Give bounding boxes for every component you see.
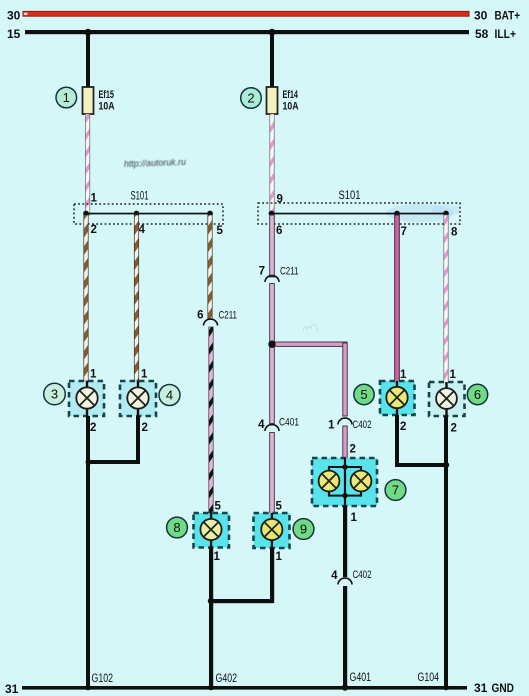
lamp 4	[120, 381, 156, 416]
callout circle 6	[467, 384, 487, 404]
svg-text:9: 9	[277, 194, 283, 206]
callout circle 1	[56, 87, 77, 108]
lamp 5	[380, 381, 415, 415]
node junction pink	[268, 341, 275, 348]
svg-text:GND: GND	[492, 681, 515, 695]
bus 15 ILL+ line	[25, 30, 469, 34]
svg-text:S101: S101	[339, 190, 361, 202]
wire lamp3 to ground	[86, 416, 90, 688]
svg-text:G401: G401	[350, 670, 372, 684]
connector C402 pin4	[331, 569, 371, 585]
wire C402 to ground G401	[342, 586, 348, 691]
svg-text:http://autoruk.ru: http://autoruk.ru	[124, 157, 187, 170]
wire C211 to junction (pink)	[270, 284, 275, 346]
svg-text:31: 31	[5, 682, 19, 696]
wire branch to C402 (pink)	[272, 342, 347, 416]
wire S101 pin4 to lamp4 (brown/white)	[134, 215, 138, 381]
lamp 6	[429, 382, 465, 416]
callout circle 8	[167, 517, 188, 538]
svg-text:1: 1	[91, 193, 98, 205]
svg-text:5: 5	[217, 225, 224, 237]
svg-text:1: 1	[400, 369, 407, 381]
wire S101 pin6 upper (pink)	[270, 215, 275, 277]
bus 30 BAT+ line	[23, 11, 469, 16]
wire junction to C401 (pink)	[270, 345, 275, 424]
wire S101 pin8 to lamp6 (pink/white)	[444, 215, 448, 383]
wire lamp8 to ground G402	[208, 548, 214, 689]
svg-text:7: 7	[259, 266, 265, 278]
svg-text:1: 1	[90, 369, 97, 381]
svg-text:6: 6	[276, 225, 282, 237]
svg-text:1: 1	[351, 512, 358, 524]
svg-text:G104: G104	[418, 670, 440, 684]
svg-text:30: 30	[474, 9, 488, 23]
wire C402 to lamp7 (pink)	[343, 426, 347, 459]
svg-text:6: 6	[197, 310, 203, 322]
lamp 3	[69, 381, 104, 416]
svg-text:3: 3	[51, 387, 58, 402]
svg-text:15: 15	[7, 27, 21, 41]
wire S101 pin2 to lamp3 (brown/white)	[84, 215, 88, 381]
label Ef15 10A	[99, 89, 115, 113]
S101 left bus wire	[83, 211, 213, 217]
callout circle 2	[241, 88, 262, 109]
svg-text:1: 1	[328, 420, 335, 432]
wire S101 pin5 upper (brown/white)	[208, 215, 212, 320]
svg-text:1: 1	[141, 369, 148, 381]
svg-text:Ef14: Ef14	[283, 89, 299, 101]
svg-text:C402: C402	[353, 569, 372, 581]
svg-text:2: 2	[451, 423, 457, 435]
svg-text:4: 4	[331, 570, 338, 582]
wire C211 to lamp8 (pink/black)	[209, 327, 213, 513]
wire lamp5 to junction	[395, 415, 448, 467]
svg-text:4: 4	[258, 419, 265, 431]
label Ef14 10A	[283, 89, 299, 113]
wire feed fuse2	[269, 29, 276, 87]
svg-text:30: 30	[7, 9, 21, 23]
svg-text:7: 7	[392, 483, 399, 498]
svg-text:8: 8	[451, 227, 458, 239]
wire fuse1 to S101 pin1 (pink/white)	[85, 114, 89, 215]
svg-text:10A: 10A	[283, 101, 299, 113]
svg-text:1: 1	[214, 551, 221, 563]
svg-text:6: 6	[474, 387, 481, 402]
svg-text:1: 1	[63, 90, 70, 105]
svg-text:C402: C402	[353, 419, 372, 431]
wire C401 to lamp9 (pink)	[270, 433, 275, 514]
lamp 9	[254, 513, 290, 548]
svg-text:2: 2	[91, 224, 97, 236]
callout circle 9	[293, 519, 314, 540]
connector C211 left	[197, 310, 237, 326]
svg-text:G402: G402	[216, 671, 238, 685]
svg-text:1: 1	[450, 369, 457, 381]
scribble mark	[303, 324, 318, 333]
wire lamp9 to junction	[211, 548, 274, 603]
svg-text:BAT+: BAT+	[495, 9, 521, 23]
svg-text:G102: G102	[92, 671, 114, 685]
splice S101 left box	[74, 204, 223, 224]
wire lamp6 to ground	[443, 416, 449, 688]
wire feed fuse1	[85, 29, 92, 87]
fuse Ef14	[267, 87, 278, 114]
svg-text:58: 58	[475, 27, 489, 41]
svg-text:8: 8	[173, 520, 180, 535]
svg-text:5: 5	[215, 501, 222, 513]
svg-text:2: 2	[400, 421, 406, 433]
svg-text:4: 4	[166, 388, 173, 403]
svg-text:5: 5	[276, 501, 283, 513]
wire lamp4 to junction	[86, 416, 141, 465]
lamp 8	[194, 513, 230, 548]
connector C402 pin1	[328, 418, 371, 431]
svg-text:9: 9	[300, 522, 307, 537]
svg-text:10A: 10A	[99, 101, 115, 113]
svg-text:S101: S101	[131, 191, 149, 203]
svg-text:5: 5	[360, 387, 367, 402]
svg-text:ILL+: ILL+	[495, 27, 517, 41]
svg-text:Ef15: Ef15	[99, 89, 115, 101]
wire S101 pin7 to lamp5 (pink)	[395, 215, 400, 382]
wire lamp7 to C402	[343, 506, 347, 577]
S101 right bus wire	[269, 211, 449, 217]
svg-text:2: 2	[350, 444, 356, 456]
connector C211 right	[259, 266, 299, 283]
svg-text:7: 7	[401, 226, 407, 238]
svg-text:2: 2	[247, 91, 254, 106]
svg-text:31: 31	[474, 681, 488, 695]
callout circle 4	[159, 385, 180, 406]
fuse Ef15	[83, 87, 94, 114]
svg-text:4: 4	[139, 224, 146, 236]
svg-text:C401: C401	[279, 417, 299, 429]
lamp 7 twin bulbs	[312, 458, 377, 506]
callout circle 3	[44, 383, 66, 405]
callout circle 5	[354, 384, 374, 404]
svg-text:C211: C211	[280, 266, 299, 278]
splice S101 right box	[258, 203, 460, 224]
bus 31 GND line	[22, 685, 467, 691]
wire fuse2 to S101 pin9 (pink/white)	[270, 114, 274, 214]
connector C401	[258, 417, 299, 432]
svg-text:2: 2	[90, 422, 96, 434]
callout circle 7	[385, 480, 406, 501]
svg-text:C211: C211	[219, 310, 238, 322]
svg-text:1: 1	[276, 551, 283, 563]
svg-text:2: 2	[142, 422, 148, 434]
